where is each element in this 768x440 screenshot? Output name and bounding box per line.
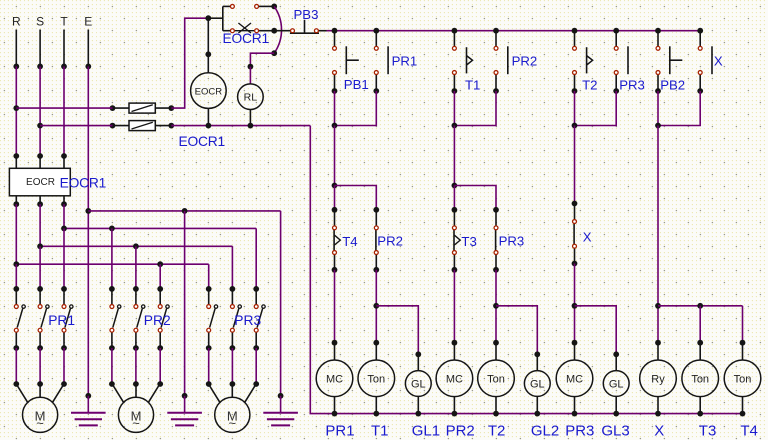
contactor PR2 pole 2 xyxy=(133,286,145,351)
wire R to fuse F1 xyxy=(16,107,112,109)
svg-text:T4: T4 xyxy=(342,234,357,249)
svg-text:GL: GL xyxy=(411,379,426,391)
pushbutton PB3 (NC) xyxy=(274,20,326,33)
svg-text:Ton: Ton xyxy=(734,373,752,385)
coil Ry (X) xyxy=(640,343,677,417)
svg-text:GL3: GL3 xyxy=(601,422,629,439)
label GL2 xyxy=(531,422,559,439)
wire fuse F1 to EOCR1 contact common xyxy=(171,15,211,108)
ground 1 xyxy=(71,396,106,426)
svg-text:S: S xyxy=(36,15,44,29)
label T3 xyxy=(699,422,717,439)
label EOCR1 under fuses xyxy=(179,134,226,149)
svg-text:PR3: PR3 xyxy=(234,313,261,328)
svg-text:GL: GL xyxy=(530,379,545,391)
wire group4 feed to Ry Ton3 Ton4 xyxy=(655,126,745,346)
svg-text:MC: MC xyxy=(326,373,343,385)
wire pole to motor lead xyxy=(13,348,19,387)
svg-text:EOCR1: EOCR1 xyxy=(60,176,107,191)
wire R vertical xyxy=(13,66,19,156)
svg-text:X: X xyxy=(583,230,592,245)
svg-text:R: R xyxy=(12,15,21,29)
wire E to grounds 2 and 3 xyxy=(88,208,283,399)
relay EOCR box xyxy=(9,168,70,196)
wire pole to motor lead xyxy=(37,348,43,387)
svg-text:T2: T2 xyxy=(582,78,597,93)
svg-text:T2: T2 xyxy=(488,422,506,439)
svg-text:T1: T1 xyxy=(371,422,389,439)
ground 3 xyxy=(263,396,298,426)
coil Ton (T3) xyxy=(682,343,719,417)
wire arc to RL lamp xyxy=(248,53,275,84)
label GL1 xyxy=(412,422,440,439)
contact T2 (row1) xyxy=(572,31,593,94)
label PR1 xyxy=(48,313,75,328)
svg-text:PR2: PR2 xyxy=(446,422,475,439)
svg-text:Ton: Ton xyxy=(367,373,385,385)
svg-text:GL1: GL1 xyxy=(412,422,440,439)
svg-text:~: ~ xyxy=(229,416,237,431)
contactor PR2 pole 1 xyxy=(109,286,121,351)
wire PR2 split to Ton1 and GL1 xyxy=(373,267,421,357)
contact PR3 (NC row2) xyxy=(494,210,498,270)
svg-text:T1: T1 xyxy=(465,78,480,93)
wire T distribution xyxy=(61,204,256,289)
label T4 xyxy=(740,422,758,439)
coil GL (GL1) xyxy=(405,354,431,416)
svg-text:EOCR1: EOCR1 xyxy=(223,31,270,46)
label X row2 xyxy=(583,230,592,245)
svg-text:PR2: PR2 xyxy=(377,234,403,249)
phase source stubs xyxy=(13,30,91,70)
svg-text:MC: MC xyxy=(446,373,463,385)
svg-text:T4: T4 xyxy=(740,422,758,439)
contactor PR1 pole 2 xyxy=(37,286,49,351)
wire group1 feed to row2 xyxy=(332,126,380,213)
svg-text:PB2: PB2 xyxy=(660,78,685,93)
svg-text:RL: RL xyxy=(244,92,258,104)
svg-text:EOCR: EOCR xyxy=(26,177,55,188)
label PR3 row2 xyxy=(499,234,525,249)
wire S distribution xyxy=(37,204,232,289)
label T4 xyxy=(342,234,357,249)
contact PR2 (NC row2) xyxy=(374,210,378,270)
svg-text:~: ~ xyxy=(132,416,140,431)
contactor PR3 pole 3 xyxy=(253,286,265,351)
coil GL (GL3) xyxy=(603,354,629,416)
wire common down to EOCR coil xyxy=(205,18,211,73)
label PR1 xyxy=(392,53,418,68)
coil MC (PR1) xyxy=(316,343,353,417)
phase labels R S T E xyxy=(12,15,92,29)
contact X (row1) xyxy=(697,31,712,94)
wire R distribution xyxy=(13,204,208,289)
motor M3 xyxy=(215,397,250,432)
svg-text:Ton: Ton xyxy=(487,373,505,385)
contact EOCR1 NO row xyxy=(230,4,277,10)
ground 2 xyxy=(167,396,202,426)
wire pole to motor lead xyxy=(253,348,259,387)
svg-text:PR1: PR1 xyxy=(48,313,75,328)
svg-text:GL2: GL2 xyxy=(531,422,559,439)
svg-text:PB1: PB1 xyxy=(344,77,369,92)
wire S to fuse F2 xyxy=(40,125,112,127)
fuse F1 xyxy=(110,103,175,113)
svg-text:PR1: PR1 xyxy=(392,53,418,68)
svg-text:Ton: Ton xyxy=(691,373,709,385)
wire group3 feed to X contact xyxy=(572,126,578,207)
wire pole to motor lead xyxy=(133,348,139,387)
label EOCR1 contact xyxy=(223,31,270,46)
label PR3 xyxy=(619,78,645,93)
contactor PR1 pole 3 xyxy=(61,286,73,351)
contact T1 (row1) xyxy=(452,31,473,94)
svg-text:PR3: PR3 xyxy=(565,422,594,439)
coil EOCR xyxy=(191,73,227,126)
svg-text:~: ~ xyxy=(36,416,44,431)
wire T vertical xyxy=(63,66,65,156)
motor M1 xyxy=(22,397,57,432)
wire X to coil MC3 and GL3 xyxy=(572,261,620,358)
contact PB2 (row1) xyxy=(655,31,682,94)
contactor PR3 pole 1 xyxy=(206,286,218,351)
label T2 xyxy=(488,422,506,439)
label PR2 xyxy=(446,422,475,439)
label PR2 row2 xyxy=(377,234,403,249)
motor M2 xyxy=(118,397,153,432)
contactor PR2 pole 3 xyxy=(157,286,169,351)
wire PR3 split to Ton2 and GL2 xyxy=(493,267,540,357)
wire pole to motor lead xyxy=(157,348,163,387)
control bus xyxy=(327,28,704,34)
svg-text:GL: GL xyxy=(609,379,624,391)
wire S vertical xyxy=(37,66,43,156)
label T1 xyxy=(371,422,389,439)
label X xyxy=(654,422,664,439)
label EOCR1 at box xyxy=(60,176,107,191)
contactor PR3 pole 2 xyxy=(230,286,242,351)
wire T3 to coil MC2 xyxy=(452,267,458,346)
wire parallel join xyxy=(332,91,377,128)
svg-text:PB3: PB3 xyxy=(294,7,319,22)
label PR1 xyxy=(325,422,354,439)
label GL3 xyxy=(601,422,629,439)
coil Ton (T1) xyxy=(358,343,395,417)
wire parallel join xyxy=(572,91,617,128)
wire neutral riser and bottom rail xyxy=(310,126,742,414)
contact PR1 (row1) xyxy=(373,31,388,94)
motor M1 leads xyxy=(16,384,64,402)
label X xyxy=(714,54,723,69)
wire group2 feed to row2 xyxy=(452,126,499,213)
coil GL (GL2) xyxy=(524,354,550,416)
wire pole to motor lead xyxy=(230,348,236,387)
svg-text:PR2: PR2 xyxy=(512,53,538,68)
svg-text:Ry: Ry xyxy=(651,373,665,385)
wire parallel join xyxy=(452,91,497,128)
coil MC (PR2) xyxy=(436,343,473,417)
coil Ton (T4) xyxy=(724,343,761,417)
svg-text:EOCR1: EOCR1 xyxy=(179,134,226,149)
contact X (NC row2) xyxy=(573,204,577,264)
coil Ton (T2) xyxy=(478,343,515,417)
wire T4 to coil MC1 xyxy=(332,267,338,346)
wire pole to motor lead xyxy=(61,348,67,387)
label PB2 xyxy=(660,78,685,93)
contact PB1 (row1) xyxy=(332,31,359,94)
label T1 xyxy=(465,78,480,93)
label PR3 xyxy=(234,313,261,328)
timer contact T4 (NC) xyxy=(333,210,341,270)
svg-text:PR3: PR3 xyxy=(499,234,525,249)
label T2 xyxy=(582,78,597,93)
wire parallel join xyxy=(655,91,700,128)
svg-text:T: T xyxy=(60,15,68,29)
wire pole to motor lead xyxy=(109,348,115,387)
contactor PR1 pole 1 xyxy=(13,286,25,351)
fuse F2 xyxy=(110,121,175,131)
timer contact T3 (NC) xyxy=(452,210,460,270)
EOCR box pins xyxy=(13,153,67,207)
contact EOCR1 NC row with X mark xyxy=(230,23,277,34)
svg-text:EOCR: EOCR xyxy=(195,86,223,97)
svg-text:PR1: PR1 xyxy=(325,422,354,439)
motor M3 leads xyxy=(209,384,257,402)
svg-text:E: E xyxy=(84,15,92,29)
contact EOCR1 changeover common leads xyxy=(208,6,230,30)
wire E vertical to ground 1 xyxy=(85,66,91,398)
svg-text:T3: T3 xyxy=(699,422,717,439)
label PR3 xyxy=(565,422,594,439)
wire pole to motor lead xyxy=(206,348,212,387)
label PR2 xyxy=(512,53,538,68)
lamp RL xyxy=(238,84,264,126)
contact PR2 (row1) xyxy=(493,31,508,94)
label PB3 xyxy=(294,7,319,22)
contact PR3 (row1) xyxy=(613,31,628,94)
actuator arc of EOCR1/PB3 linkage xyxy=(271,6,281,56)
svg-text:MC: MC xyxy=(566,373,583,385)
wire neutral from fuse F2 to right riser xyxy=(171,123,310,129)
label T3 xyxy=(461,234,476,249)
svg-text:PR2: PR2 xyxy=(144,313,171,328)
svg-text:PR3: PR3 xyxy=(619,78,645,93)
svg-text:X: X xyxy=(714,54,723,69)
coil MC (PR3) xyxy=(556,343,593,417)
label PB1 xyxy=(344,77,369,92)
svg-text:X: X xyxy=(654,422,664,439)
label PR2 xyxy=(144,313,171,328)
svg-text:T3: T3 xyxy=(461,234,476,249)
motor M2 leads xyxy=(112,384,160,402)
